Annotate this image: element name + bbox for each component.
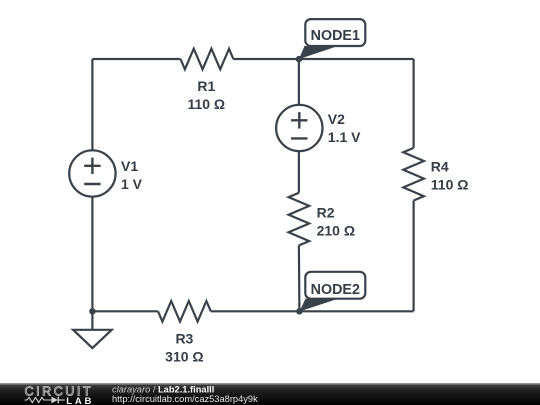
svg-text:V1: V1 bbox=[121, 158, 138, 174]
resistor R4 bbox=[403, 148, 468, 201]
wire: V1 bottom to ground junction bbox=[91, 197, 93, 312]
wire: V2 bottom to R2 top bbox=[298, 151, 300, 193]
wire: R3 left to ground junction bbox=[92, 310, 158, 312]
resistor R2 bbox=[289, 193, 355, 246]
svg-text:http://circuitlab.com/caz53a8r: http://circuitlab.com/caz53a8rp4y9k bbox=[112, 394, 258, 404]
wire: NODE1 to top-right corner bbox=[299, 58, 414, 60]
wire top: node A to R1 left bbox=[92, 58, 180, 60]
wire: R1 right to NODE1 bbox=[233, 58, 299, 60]
resistor R3 bbox=[158, 301, 211, 364]
svg-text:210 Ω: 210 Ω bbox=[317, 222, 355, 238]
wire: R2 bottom to NODE2 bbox=[298, 245, 301, 311]
wire: junction to ground symbol bbox=[91, 311, 93, 330]
svg-text:310 Ω: 310 Ω bbox=[165, 348, 203, 364]
svg-text:R4: R4 bbox=[431, 159, 449, 175]
svg-text:R1: R1 bbox=[197, 78, 215, 94]
wire middle vertical: NODE1 to V2 top bbox=[298, 59, 300, 105]
node NODE2 callout box bbox=[305, 272, 365, 299]
node NODE2 callout tail bbox=[299, 299, 338, 312]
node NODE1 callout box bbox=[305, 19, 365, 46]
svg-text:LAB: LAB bbox=[66, 396, 94, 405]
wire bottom: corner to NODE2 bbox=[299, 310, 413, 312]
svg-text:NODE1: NODE1 bbox=[311, 28, 360, 44]
wire: NODE2 to R3 right bbox=[211, 310, 300, 312]
ground bbox=[73, 330, 112, 348]
svg-text:110 Ω: 110 Ω bbox=[431, 177, 469, 193]
svg-text:R2: R2 bbox=[317, 204, 335, 220]
svg-text:1 V: 1 V bbox=[121, 176, 143, 192]
node NODE2 dot bbox=[296, 308, 302, 314]
svg-text:R3: R3 bbox=[175, 330, 193, 346]
svg-text:110 Ω: 110 Ω bbox=[187, 96, 225, 112]
svg-text:clarayaro / Lab2.1.finalll: clarayaro / Lab2.1.finalll bbox=[112, 385, 214, 395]
logo resistor zigzag bbox=[25, 397, 52, 402]
wire right vertical: corner to R4 top bbox=[413, 59, 415, 148]
junction dot at ground bbox=[89, 308, 95, 314]
voltage source V1 bbox=[69, 150, 142, 196]
logo diode bbox=[51, 397, 58, 404]
voltage source V2 bbox=[276, 105, 361, 151]
svg-text:V2: V2 bbox=[328, 111, 345, 127]
node NODE1 callout tail bbox=[299, 46, 338, 59]
node NODE1 dot bbox=[296, 56, 302, 62]
resistor R1 bbox=[181, 49, 234, 112]
svg-text:1.1 V: 1.1 V bbox=[328, 129, 361, 145]
svg-text:NODE2: NODE2 bbox=[311, 282, 360, 298]
wire left vertical: top corner to V1 top bbox=[91, 59, 93, 150]
wire: R4 bottom to bottom-right corner bbox=[413, 201, 415, 312]
